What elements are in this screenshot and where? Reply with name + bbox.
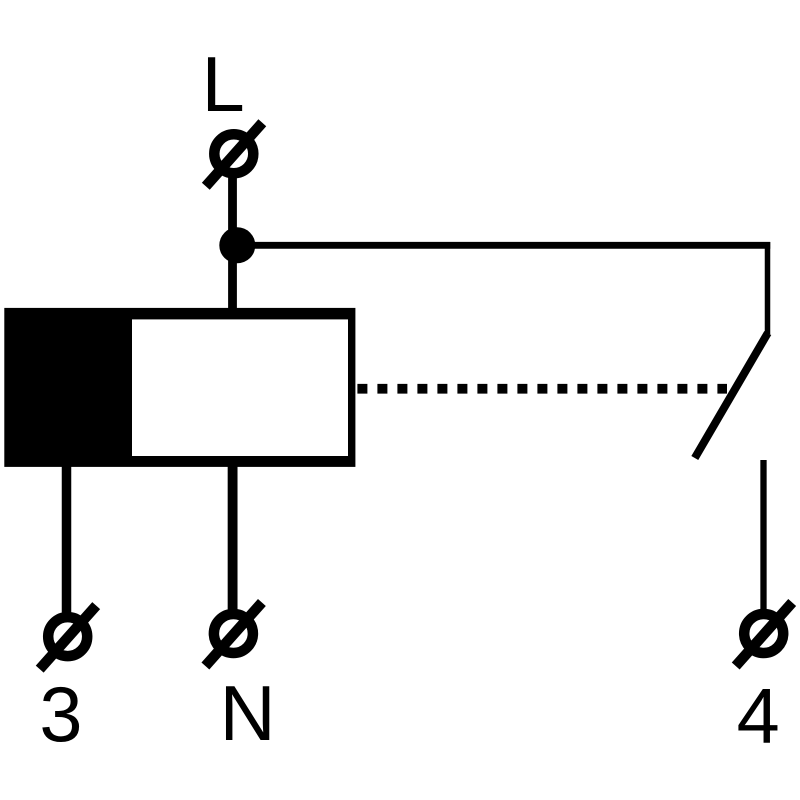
switch S1 blade <box>695 333 768 458</box>
wire node A to coil <box>228 244 237 310</box>
wire coil to terminal N <box>228 465 238 611</box>
mechanical link dotted <box>357 384 727 394</box>
wire switch lower lead to terminal 4 <box>760 460 766 611</box>
terminal 3 <box>40 606 96 670</box>
wire node A to switch <box>237 242 770 249</box>
svg-text:L: L <box>202 42 245 128</box>
relay coil K1 window <box>132 319 348 456</box>
wire switch upper lead <box>765 242 771 334</box>
svg-text:4: 4 <box>737 674 780 760</box>
svg-text:3: 3 <box>39 672 82 758</box>
terminal N <box>205 603 262 667</box>
terminal 4 <box>736 603 793 667</box>
svg-text:N: N <box>220 671 276 757</box>
terminal L <box>206 123 262 187</box>
wire L to node A <box>228 172 237 247</box>
wire coil to terminal 3 <box>62 465 72 614</box>
node A junction dot <box>219 227 255 263</box>
relay coil K1 body <box>4 308 355 467</box>
